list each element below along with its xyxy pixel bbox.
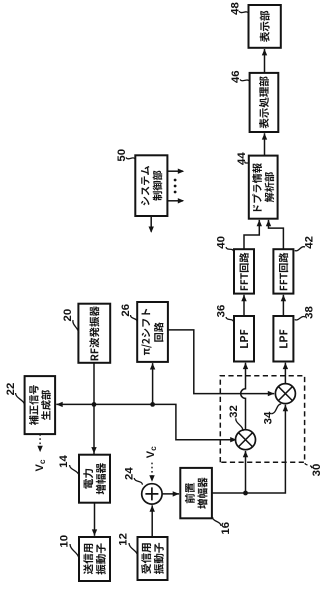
label 48 (229, 2, 248, 15)
svg-text:32: 32 (228, 405, 240, 418)
label 34 (263, 404, 282, 425)
wire RF oscillator 20 to power amplifier 14 (91, 363, 96, 455)
system controller 50 control arrow c (149, 216, 154, 233)
label 40 (215, 236, 233, 251)
mixer 32 (circle with X) (236, 430, 256, 450)
label 10 (59, 535, 80, 559)
block 36 LPF (234, 316, 254, 362)
wire bus vertical to correction generator 22 (56, 402, 235, 440)
svg-text:14: 14 (58, 455, 70, 468)
label 24 (124, 467, 143, 485)
block 12 receiving transducer (受信用振動子) (138, 537, 168, 580)
svg-text:10: 10 (59, 535, 71, 548)
svg-text:40: 40 (215, 236, 227, 249)
ellipsis dots between control arrows (174, 179, 177, 194)
svg-text:46: 46 (230, 70, 242, 83)
wire adder 24 to preamplifier 16 (162, 491, 179, 496)
label 26 (120, 304, 137, 322)
block 42 FFT circuit (FFT回路) (273, 249, 293, 293)
label 16 (213, 517, 232, 535)
svg-text:38: 38 (303, 306, 315, 319)
svg-text:20: 20 (62, 309, 74, 322)
wire mixer 34 to LPF 38 (283, 363, 288, 384)
label 46 (230, 70, 250, 83)
svg-text:12: 12 (117, 533, 129, 546)
mixer 34 (circle with X) (275, 384, 295, 404)
block 40 FFT circuit (FFT回路) (234, 249, 254, 293)
label 12 (117, 533, 137, 556)
wire analyzer 44 to display processor 46 (262, 133, 267, 155)
block 22 correction signal generator (補正信号生成部) (25, 376, 55, 434)
label 50 (116, 149, 136, 162)
svg-text:42: 42 (303, 236, 315, 249)
system controller 50 control arrow b (167, 198, 184, 203)
block 16 preamplifier (前置増幅器) (180, 468, 212, 518)
wire LPF 36 to FFT 40 (241, 295, 246, 316)
wire preamp junction to mixer 32 (243, 451, 248, 493)
label 42 (295, 236, 316, 251)
svg-text:16: 16 (220, 522, 232, 535)
dotted Vc output from correction generator 22 (37, 434, 42, 452)
wire bus branch to pi/2 shift 26 (150, 363, 155, 404)
wire preamplifier 16 output to mixers (212, 405, 288, 493)
svg-text:48: 48 (229, 2, 241, 15)
wire FFT 42 to analyzer 44 (266, 220, 284, 249)
label 44 (236, 152, 249, 165)
dashed block 30 quadrature detector (220, 376, 304, 463)
wire transducer 12 to adder 24 (150, 505, 155, 537)
wire mixer 32 to LPF 36 with hop over crossing (241, 363, 248, 430)
block 50 system controller (システム制御部) (135, 155, 167, 216)
wire power amplifier 14 to transducer 10 (92, 503, 97, 536)
label 14 (58, 455, 79, 476)
svg-text:36: 36 (215, 305, 227, 318)
label 32 (228, 405, 243, 431)
label 22 (5, 383, 25, 406)
wire pi/2 shift 26 to mixer 34 (168, 330, 274, 396)
label 36 (215, 305, 233, 322)
wire FFT 40 to analyzer 44 (244, 220, 262, 249)
block 46 display processor (表示処理部) (250, 73, 279, 132)
block 44 Doppler information analyzer (ドプラ情報解析部) (249, 156, 278, 219)
arrowhead into mixer 32 top (230, 437, 236, 442)
label 38 (295, 306, 316, 320)
system controller 50 control arrow a (167, 169, 184, 174)
block 14 power amplifier (電力増幅器) (79, 455, 110, 503)
svg-text:26: 26 (120, 304, 132, 317)
block 10 transmitting transducer (送信用振動子) (79, 537, 110, 581)
svg-text:24: 24 (124, 467, 136, 480)
junction dot bus/branch 26 (150, 402, 155, 407)
block 26 pi/2 shift circuit (π/2シフト回路) (137, 302, 168, 362)
block 20 RF oscillator (RF波発振器) (78, 304, 110, 363)
junction dot preamp output (243, 491, 248, 496)
block 38 LPF (273, 316, 293, 362)
block 48 display (表示部) (249, 5, 281, 48)
label 30 (305, 462, 323, 476)
adder 24 (circle with plus) (142, 484, 162, 504)
label 20 (62, 309, 78, 334)
wire display processor 46 to display 48 (262, 49, 267, 73)
junction dot bus/amp line (92, 402, 97, 407)
wire LPF 38 to FFT 42 (281, 295, 286, 316)
svg-text:30: 30 (311, 464, 323, 477)
svg-text:50: 50 (116, 149, 128, 162)
dotted Vc input into adder 24 (149, 463, 154, 482)
